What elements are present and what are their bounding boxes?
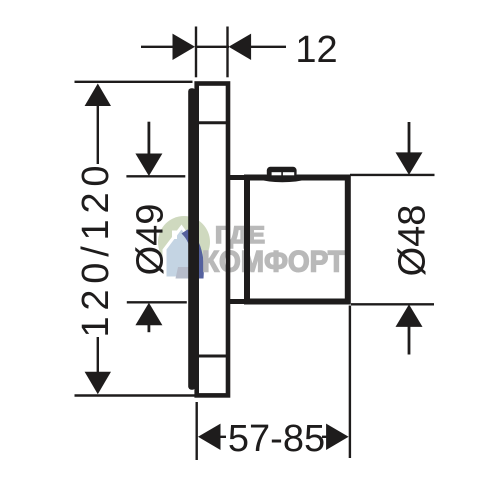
plate seam bar: [188, 88, 196, 390]
dim 49 up arrow line: [147, 323, 150, 332]
svg-text:12: 12: [295, 29, 337, 71]
dim 48 up arrow: [396, 304, 423, 327]
dim 48 top extension line: [350, 174, 435, 176]
dim 48 bottom extension line: [351, 303, 434, 305]
dim 12 left line: [141, 46, 173, 48]
dim 12 right extension line: [226, 27, 228, 78]
watermark logo house: [163, 225, 200, 280]
dim 12 left extension line: [195, 27, 197, 78]
dim 57-85 right extension line: [349, 306, 351, 459]
wall plate outline: [197, 84, 228, 396]
knob top shallow curve: [254, 177, 311, 181]
dim 120/120 bottom extension line: [75, 394, 196, 396]
dim 48 up arrow line: [408, 325, 411, 355]
dim 49 down arrow: [135, 154, 162, 177]
plate internal line top: [199, 121, 226, 124]
knob bottom connector: [226, 299, 248, 304]
dim 48 down arrow line: [408, 122, 411, 154]
knob top connector: [226, 175, 248, 180]
dim 12 right arrow: [229, 34, 252, 60]
dim 120/120 top extension line: [75, 81, 193, 83]
dim 57-85 right arrow: [326, 424, 349, 450]
dim 57-85 left arrow: [198, 424, 221, 450]
svg-text:Ø48: Ø48: [392, 205, 434, 277]
dim 57-85 left extension line: [195, 402, 197, 460]
dim 57-85 left dash: [219, 436, 226, 438]
dim 12 middle line: [195, 46, 229, 48]
dim 120/120 line lower: [97, 337, 99, 373]
svg-text:57-85: 57-85: [228, 418, 325, 460]
dim 12 right line: [251, 46, 286, 48]
dim 120/120 down arrow: [85, 372, 111, 395]
dim 12 left arrow: [173, 34, 196, 60]
watermark logo blue swoosh: [176, 230, 204, 279]
svg-text:120/120: 120/120: [75, 166, 117, 338]
watermark logo (green circle): [158, 216, 210, 268]
svg-text:Ø49: Ø49: [130, 204, 172, 276]
dim 49 down arrow line: [147, 122, 150, 155]
clip on knob top: [267, 167, 297, 178]
knob (thermostat handle) outline: [247, 178, 348, 302]
dim 49 up arrow: [135, 303, 162, 326]
dim 120/120 up arrow: [85, 84, 111, 107]
dim 120/120 line upper: [97, 104, 99, 164]
dim 49 bottom extension line: [127, 301, 187, 303]
plate internal line bottom: [199, 355, 226, 358]
dim 48 down arrow: [396, 152, 423, 175]
svg-text:КОМФОРТ: КОМФОРТ: [202, 246, 345, 279]
dim 57-85 right dash: [322, 436, 328, 438]
dim 49 top extension line: [126, 175, 185, 177]
